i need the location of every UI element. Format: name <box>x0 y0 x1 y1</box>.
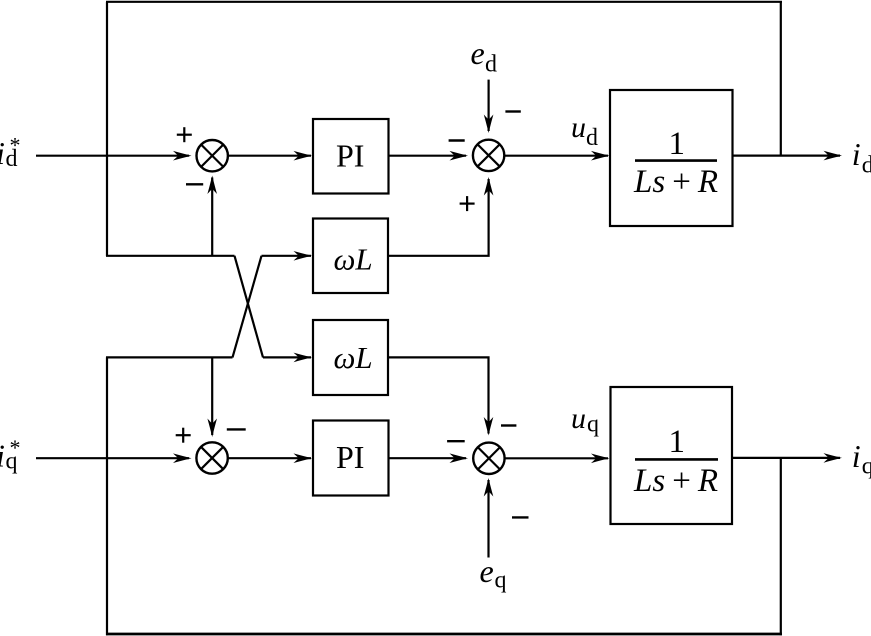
svg-text:*: * <box>10 435 21 460</box>
wire upper omegaL output to under S2 <box>389 179 489 256</box>
svg-text:1: 1 <box>669 424 686 460</box>
minus sign at S2 left input <box>449 139 465 141</box>
block PI d-axis <box>313 119 389 194</box>
arrowhead up into S2 from omegaL <box>484 177 494 196</box>
arrowhead iq output <box>824 453 843 463</box>
svg-text:u: u <box>571 402 586 435</box>
wire S2 to plant block ud <box>505 155 609 157</box>
arrowhead into lower omegaL <box>294 353 313 363</box>
label iq output <box>852 438 871 479</box>
wire eq up into S4 <box>487 480 489 558</box>
svg-text:e: e <box>471 35 485 71</box>
svg-text:d: d <box>862 153 871 179</box>
block plant 1/(Ls+R) d-axis <box>610 90 733 226</box>
label ud <box>571 111 598 151</box>
arrowhead into S1 <box>173 151 192 161</box>
arrowhead into PI q-axis <box>294 453 313 463</box>
svg-text:Ls+R: Ls+R <box>633 463 718 499</box>
minus sign at S4 left input <box>447 440 465 442</box>
arrowhead up into S1 feedback <box>207 176 217 195</box>
svg-text:e: e <box>480 553 494 589</box>
svg-text:i: i <box>0 135 5 171</box>
plus sign at S1 input <box>177 127 192 142</box>
svg-text:Ls+R: Ls+R <box>633 164 718 200</box>
fraction bar d-axis plant <box>635 159 717 162</box>
svg-text:i: i <box>852 438 861 474</box>
wire lower omegaL output to above S4 <box>389 357 489 433</box>
wire S1 to PI block d-axis <box>228 155 311 157</box>
arrowhead ed down into S2 <box>484 115 494 134</box>
arrowhead into S2 from PI <box>450 151 469 161</box>
arrowhead into upper omegaL <box>294 251 313 261</box>
svg-text:d: d <box>485 51 497 77</box>
wire feedback routing bottom edge <box>106 633 782 636</box>
svg-text:*: * <box>10 133 21 158</box>
block omegaL upper <box>313 219 388 294</box>
wire input iq* to summing junction S3 <box>36 457 189 459</box>
minus sign at S2 ed input <box>505 110 520 112</box>
label iq* input <box>0 435 21 475</box>
wire plant output to iq <box>733 457 841 459</box>
wire input id* to summing junction S1 <box>36 155 189 157</box>
svg-text:i: i <box>852 136 861 172</box>
arrowhead down into S3 feedback <box>207 419 217 438</box>
minus sign at S1 feedback input <box>186 183 203 185</box>
summing junction S2 <box>473 140 504 171</box>
minus sign at S4 upper input <box>501 424 516 426</box>
wire feedback routing left edge upper (top to id tap) <box>106 2 108 256</box>
wire feedback routing top edge <box>106 1 782 3</box>
wire iq feedback horizontal tap y=357 <box>106 356 233 358</box>
wire into lower omegaL block <box>263 356 311 358</box>
arrowhead into plant d-axis <box>591 151 610 161</box>
arrowhead into S4 from PI <box>450 453 469 463</box>
wire feedback routing left edge lower (bottom to iq tap) <box>106 357 108 635</box>
wire ed down into S2 <box>488 80 490 131</box>
wire plant output to id <box>733 155 841 157</box>
arrowhead down into S4 from omegaL <box>484 417 494 436</box>
minus sign at S3 feedback input <box>227 428 246 430</box>
wire into upper omegaL block <box>262 255 312 257</box>
label uq <box>571 402 599 438</box>
wire PI d-axis to summing junction S2 <box>389 155 467 157</box>
label eq <box>480 553 507 594</box>
plus sign at S2 lower input <box>460 196 475 211</box>
svg-text:q: q <box>587 412 599 438</box>
wire S4 to plant block uq <box>505 457 608 459</box>
block omegaL lower <box>313 320 388 395</box>
label ed <box>471 35 498 77</box>
summing junction S1 <box>197 140 228 171</box>
wire PI q-axis to summing junction S4 <box>389 457 467 459</box>
svg-text:i: i <box>0 438 5 474</box>
plus sign at S3 input <box>176 428 191 443</box>
svg-text:PI: PI <box>336 439 364 475</box>
fraction bar q-axis plant <box>635 458 718 461</box>
minus sign at S4 eq input <box>512 516 529 518</box>
wire crossover diagonal iq-tap to upper coupling <box>233 256 262 358</box>
summing junction S4 <box>473 443 504 474</box>
summing junction S3 <box>196 442 227 473</box>
svg-text:u: u <box>571 111 586 144</box>
arrowhead into PI d-axis <box>294 151 313 161</box>
wire id feedback horizontal tap y=256 <box>106 255 235 257</box>
wire feedback routing right edge lower (iq output to bottom) <box>780 458 782 635</box>
svg-text:q: q <box>862 453 871 479</box>
wire feedback routing right edge upper (id output to top) <box>780 1 782 156</box>
svg-text:ωL: ωL <box>334 340 373 375</box>
arrowhead up into S4 from eq <box>484 478 494 497</box>
arrowhead id output <box>824 151 843 161</box>
svg-text:1: 1 <box>669 126 686 162</box>
arrowhead into S3 <box>173 453 192 463</box>
wire crossover diagonal id-tap to lower coupling <box>235 256 264 358</box>
label id output <box>852 136 871 178</box>
arrowhead into plant q-axis <box>591 454 610 464</box>
svg-text:PI: PI <box>336 137 364 173</box>
wire S3 to PI block q-axis <box>228 457 311 459</box>
svg-text:ωL: ωL <box>334 242 373 277</box>
label id* input <box>0 133 21 173</box>
wire iq feedback down into S3 minus input <box>211 357 213 435</box>
svg-text:q: q <box>495 568 507 594</box>
block plant 1/(Ls+R) q-axis <box>611 387 733 524</box>
wire id feedback up into S1 minus input <box>211 178 213 256</box>
block PI q-axis <box>313 421 389 496</box>
svg-text:d: d <box>586 125 598 151</box>
